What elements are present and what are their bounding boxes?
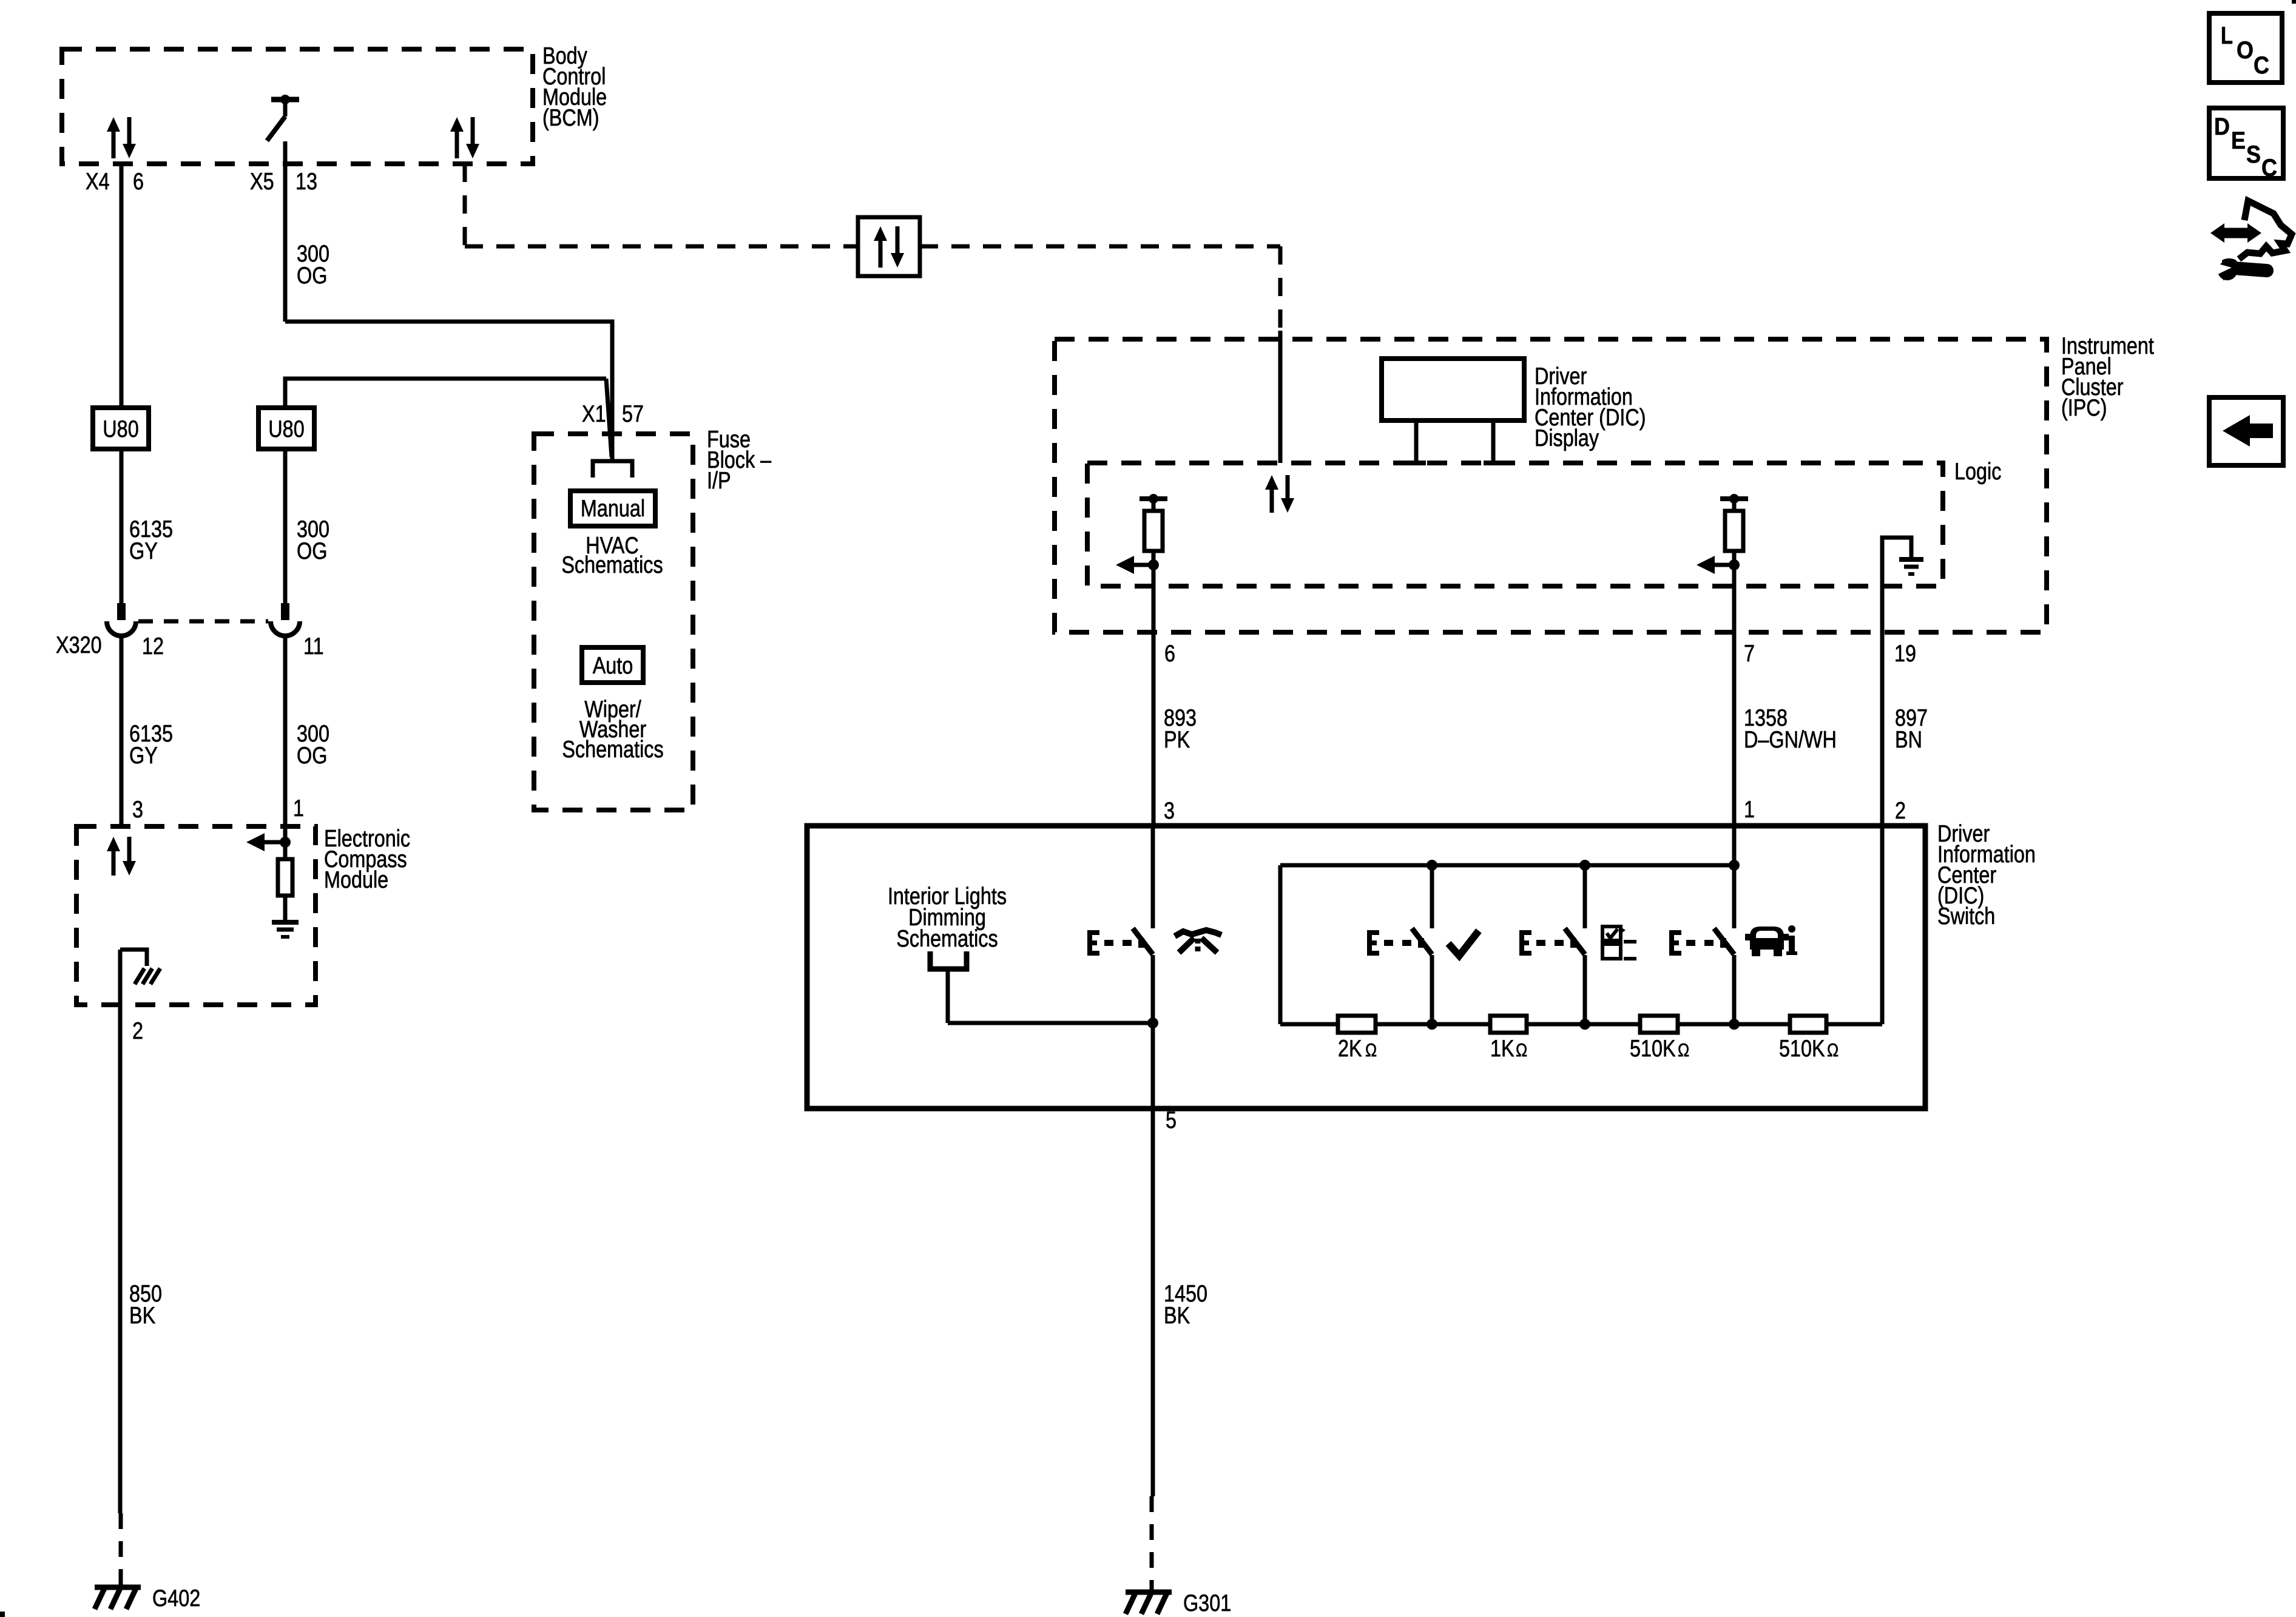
svg-text:1K: 1K bbox=[1490, 1036, 1514, 1062]
svg-text:O: O bbox=[2237, 37, 2254, 64]
svg-text:Switch: Switch bbox=[1937, 903, 1995, 930]
svg-text:OG: OG bbox=[297, 263, 327, 289]
svg-text:2K: 2K bbox=[1338, 1036, 1362, 1062]
svg-text:12: 12 bbox=[142, 633, 164, 660]
svg-text:Ω: Ω bbox=[1516, 1039, 1527, 1061]
svg-text:GY: GY bbox=[129, 538, 158, 564]
svg-text:6: 6 bbox=[1164, 641, 1175, 667]
svg-text:C: C bbox=[2261, 155, 2277, 181]
svg-text:OG: OG bbox=[297, 538, 327, 564]
svg-text:Schematics: Schematics bbox=[562, 737, 663, 763]
svg-text:X5: X5 bbox=[250, 169, 274, 195]
svg-text:Schematics: Schematics bbox=[561, 552, 663, 578]
svg-text:Auto: Auto bbox=[593, 653, 633, 679]
svg-text:1: 1 bbox=[293, 795, 304, 822]
svg-text:D: D bbox=[2214, 113, 2230, 140]
svg-text:Schematics: Schematics bbox=[896, 926, 998, 952]
svg-text:U80: U80 bbox=[103, 416, 138, 442]
svg-text:S: S bbox=[2246, 141, 2261, 168]
svg-text:BK: BK bbox=[129, 1303, 155, 1329]
svg-text:2: 2 bbox=[132, 1018, 143, 1044]
svg-text:GY: GY bbox=[129, 743, 158, 769]
svg-text:Ω: Ω bbox=[1678, 1039, 1689, 1061]
svg-text:19: 19 bbox=[1894, 641, 1916, 667]
svg-text:57: 57 bbox=[622, 401, 644, 427]
svg-text:L: L bbox=[2221, 22, 2233, 49]
svg-text:5: 5 bbox=[1166, 1107, 1177, 1133]
svg-text:Module: Module bbox=[324, 867, 388, 893]
svg-text:X4: X4 bbox=[86, 169, 110, 195]
svg-text:6: 6 bbox=[133, 169, 144, 195]
svg-text:D–GN/WH: D–GN/WH bbox=[1744, 727, 1837, 753]
svg-text:U80: U80 bbox=[268, 416, 304, 442]
svg-text:E: E bbox=[2231, 127, 2246, 154]
svg-text:Ω: Ω bbox=[1365, 1039, 1377, 1061]
svg-text:G402: G402 bbox=[152, 1585, 200, 1612]
svg-text:7: 7 bbox=[1744, 641, 1755, 667]
svg-text:Ω: Ω bbox=[1827, 1039, 1838, 1061]
svg-text:OG: OG bbox=[297, 743, 327, 769]
svg-text:BK: BK bbox=[1164, 1303, 1190, 1329]
svg-text:(IPC): (IPC) bbox=[2061, 395, 2107, 421]
svg-text:PK: PK bbox=[1164, 727, 1190, 753]
svg-text:3: 3 bbox=[132, 797, 143, 823]
svg-text:X1: X1 bbox=[582, 401, 606, 427]
svg-text:Manual: Manual bbox=[581, 496, 645, 522]
svg-text:G301: G301 bbox=[1183, 1590, 1231, 1616]
svg-text:13: 13 bbox=[295, 169, 317, 195]
svg-text:I/P: I/P bbox=[707, 468, 731, 494]
svg-text:3: 3 bbox=[1164, 798, 1175, 824]
svg-text:2: 2 bbox=[1895, 798, 1906, 824]
svg-text:(BCM): (BCM) bbox=[542, 105, 599, 131]
svg-text:1: 1 bbox=[1744, 797, 1755, 823]
svg-text:BN: BN bbox=[1895, 727, 1922, 753]
svg-text:11: 11 bbox=[303, 633, 324, 660]
svg-text:Logic: Logic bbox=[1954, 459, 2001, 485]
svg-text:C: C bbox=[2254, 52, 2269, 79]
svg-text:510K: 510K bbox=[1779, 1036, 1825, 1062]
svg-text:Display: Display bbox=[1535, 425, 1599, 451]
svg-text:X320: X320 bbox=[56, 632, 102, 658]
svg-text:510K: 510K bbox=[1630, 1036, 1676, 1062]
